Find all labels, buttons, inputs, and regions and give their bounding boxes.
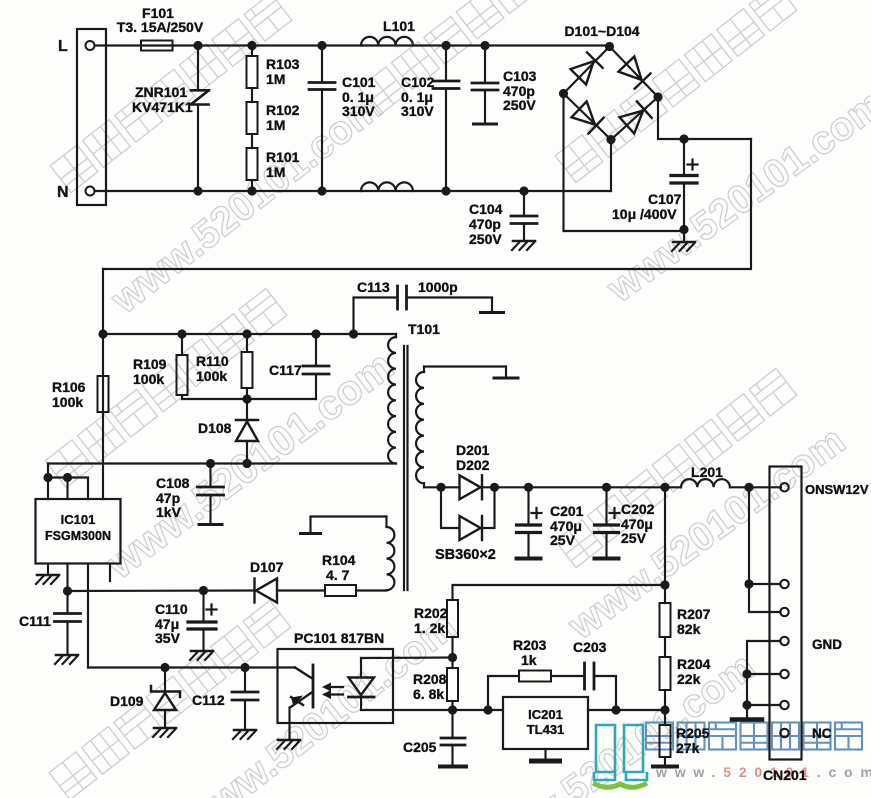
- junction divider top: [660, 483, 669, 492]
- junction R203 branch: [483, 705, 492, 714]
- wire to IC101 vcc pins: [48, 464, 88, 500]
- svg-text:C112: C112: [192, 692, 225, 708]
- junction rail-C117: [311, 329, 320, 338]
- svg-text:R110: R110: [196, 353, 229, 369]
- wire LED cathode line: [361, 709, 503, 711]
- capacitor C203: [583, 663, 586, 689]
- wire secondary top stub: [424, 367, 506, 377]
- transformer T101 primary: [395, 334, 397, 337]
- junction D108 bottom: [242, 459, 251, 468]
- op-amp U2 IC201 TL431: [503, 697, 588, 749]
- junction bridge right: [653, 92, 662, 101]
- svg-text:310V: 310V: [342, 103, 375, 119]
- ground (C205): [440, 765, 466, 769]
- transformer T101 secondary: [423, 367, 425, 373]
- svg-text:1000p: 1000p: [418, 279, 458, 295]
- light arrows PC101: [325, 686, 343, 688]
- svg-text:310V: 310V: [401, 103, 434, 119]
- svg-text:R208: R208: [413, 671, 447, 687]
- svg-text:D108: D108: [198, 420, 232, 436]
- svg-text:C205: C205: [403, 739, 437, 755]
- svg-text:C102: C102: [401, 74, 435, 90]
- svg-text:GND: GND: [812, 637, 842, 652]
- svg-text:L101: L101: [383, 18, 415, 34]
- svg-text:R102: R102: [266, 102, 300, 118]
- wire IC201 ref line: [588, 709, 665, 711]
- junction N-C101: [317, 186, 326, 195]
- svg-text:R109: R109: [133, 356, 167, 372]
- ground (IC101): [37, 574, 59, 577]
- junction IC101 pin2: [63, 473, 72, 482]
- stub (C108 bottom): [199, 523, 222, 526]
- wire R109/R110/C117 bottom: [182, 398, 316, 400]
- resistor R110: [246, 334, 248, 352]
- wire divider chain: [664, 487, 666, 603]
- junction bridge top: [605, 42, 614, 51]
- chassis stub (secondary): [494, 377, 518, 380]
- junction D201 anode: [436, 483, 445, 492]
- optocoupler PC101: [278, 649, 394, 723]
- inductor L101 (bottom): [361, 182, 413, 191]
- capacitor C107: [683, 139, 685, 174]
- ground (R205): [653, 765, 677, 769]
- wire 12V rail: [424, 486, 459, 488]
- junction L201 out: [744, 483, 753, 492]
- resistor R104: [325, 585, 356, 596]
- svg-text:D107: D107: [250, 559, 284, 575]
- capacitor C110: [202, 591, 204, 622]
- ground (C112): [234, 729, 256, 732]
- wire L rail: [95, 44, 610, 46]
- junction L-C101: [317, 41, 326, 50]
- svg-text:KV471K1: KV471K1: [132, 99, 193, 115]
- svg-text:D202: D202: [456, 457, 490, 473]
- ground (IC201): [532, 759, 560, 764]
- junction Vcc node: [63, 586, 72, 595]
- svg-text:R207: R207: [677, 606, 711, 622]
- wire IC101 vcc-sense pin: [66, 564, 68, 592]
- svg-text:6. 8k: 6. 8k: [413, 686, 444, 702]
- svg-text:C201: C201: [550, 503, 584, 519]
- svg-text:R106: R106: [52, 379, 86, 395]
- wire LED anode to R202/R208: [361, 656, 453, 659]
- wire R202 feed: [453, 585, 666, 600]
- junction R202/R208: [448, 653, 457, 662]
- ground (PC101): [278, 739, 300, 742]
- capacitor C113: [354, 298, 397, 335]
- svg-text:T3. 15A/250V: T3. 15A/250V: [117, 19, 204, 35]
- wire aux top stub: [311, 517, 387, 533]
- diode D201: [460, 475, 483, 499]
- wire IC201 anode: [544, 749, 546, 759]
- svg-text:C103: C103: [503, 68, 537, 84]
- wire bridge bottom to N rail: [610, 140, 612, 191]
- diode D107: [255, 579, 278, 603]
- inductor L101 (top): [361, 37, 413, 46]
- ground (D109): [154, 727, 176, 730]
- junction R202 tap: [660, 580, 669, 589]
- svg-text:1. 2k: 1. 2k: [414, 620, 445, 636]
- junction C201: [524, 483, 533, 492]
- svg-text:C108: C108: [156, 475, 190, 491]
- svg-text:82k: 82k: [677, 621, 701, 637]
- svg-text:470p: 470p: [469, 216, 501, 232]
- svg-text:C202: C202: [621, 501, 655, 517]
- wire C203 to ref: [595, 676, 616, 710]
- capacitor C104: [523, 191, 525, 216]
- resistor R101: [247, 148, 258, 180]
- svg-text:C117: C117: [269, 362, 302, 378]
- svg-text:NC: NC: [812, 726, 832, 741]
- svg-text:R203: R203: [513, 637, 547, 653]
- svg-text:FSGM300N: FSGM300N: [45, 529, 111, 543]
- svg-text:C111: C111: [19, 613, 51, 629]
- junction C107 bottom: [679, 225, 688, 234]
- junction C107 top: [679, 134, 688, 143]
- junction bridge left: [559, 89, 568, 98]
- terminal block L/N input: [77, 29, 106, 205]
- diode D108: [246, 399, 248, 419]
- svg-text:L: L: [58, 38, 68, 55]
- capacitor C103: [484, 46, 486, 83]
- transformer T101 core: [403, 346, 405, 590]
- wire gnd pins 4-6: [747, 641, 781, 717]
- junction pin5: [742, 669, 751, 678]
- svg-text:100k: 100k: [196, 368, 227, 384]
- bridge rectifier D101~D104: [564, 47, 659, 140]
- junction D109: [160, 663, 169, 672]
- ground (C202): [595, 557, 619, 561]
- wire IC101 fb pin down: [87, 564, 89, 668]
- svg-text:T101: T101: [408, 321, 440, 337]
- junction C108: [206, 459, 215, 468]
- wire PC101 emitter: [288, 708, 290, 740]
- svg-text:C107: C107: [648, 191, 682, 207]
- junction N-R101: [247, 186, 256, 195]
- svg-text:22k: 22k: [677, 671, 701, 687]
- op-amp U1 IC101 FSGM300N: [36, 499, 121, 564]
- svg-text:N: N: [57, 184, 69, 201]
- svg-text:C113: C113: [357, 279, 390, 295]
- wire D107 to R104: [278, 589, 326, 591]
- ground (C107): [673, 241, 695, 244]
- junction N-C102: [441, 186, 450, 195]
- svg-text:1kV: 1kV: [156, 504, 182, 520]
- junction IC101 pin1: [43, 473, 52, 482]
- junction L-C103: [480, 41, 489, 50]
- wire IC101 pin stubs: [47, 478, 49, 500]
- ground (C111): [56, 654, 78, 657]
- junction divider tap: [660, 705, 669, 714]
- svg-text:D101~D104: D101~D104: [564, 23, 639, 39]
- junction pin2: [744, 579, 753, 588]
- svg-text:PC101 817BN: PC101 817BN: [294, 630, 384, 646]
- fuse F101: [141, 41, 173, 51]
- svg-text:R204: R204: [677, 656, 711, 672]
- svg-text:IC101: IC101: [61, 512, 96, 527]
- resistor R102: [247, 102, 258, 134]
- svg-text:1M: 1M: [266, 117, 285, 133]
- svg-text:100k: 100k: [52, 394, 83, 410]
- svg-text:C104: C104: [469, 201, 503, 217]
- wire R203/C203 branch: [488, 676, 519, 710]
- junction bridge bottom: [606, 135, 615, 144]
- junction C110: [199, 586, 208, 595]
- junction C202: [602, 483, 611, 492]
- svg-text:ONSW12V: ONSW12V: [805, 482, 869, 497]
- junction L-R103: [247, 41, 256, 50]
- varistor ZNR101: [197, 46, 199, 91]
- capacitor C111: [66, 591, 68, 613]
- wire primary bottom: [48, 462, 396, 464]
- svg-text:R205: R205: [676, 725, 710, 741]
- svg-text:10μ /400V: 10μ /400V: [612, 206, 677, 222]
- capacitor C117: [315, 334, 317, 366]
- junction pin6: [742, 700, 751, 709]
- wire R203 to C203: [551, 675, 583, 677]
- svg-text:SB360×2: SB360×2: [435, 547, 496, 563]
- resistor R208: [451, 658, 453, 669]
- svg-text:R101: R101: [266, 149, 300, 165]
- ground (C104): [513, 240, 535, 243]
- svg-text:L201: L201: [691, 464, 723, 480]
- capacitor C101: [321, 46, 323, 83]
- capacitor C205: [451, 710, 453, 738]
- svg-text:4. 7: 4. 7: [326, 567, 350, 583]
- wire IC101 fb line: [88, 666, 278, 668]
- wire startup rail: [103, 333, 396, 335]
- ground (C201): [517, 557, 541, 561]
- junction rail-R109: [177, 329, 186, 338]
- ground (C110): [191, 650, 213, 653]
- svg-text:TL431: TL431: [527, 722, 565, 737]
- wire Vcc line: [68, 589, 255, 592]
- svg-text:1k: 1k: [521, 652, 537, 668]
- junction C112: [240, 663, 249, 672]
- wire IC101 ground pin: [47, 564, 49, 575]
- svg-text:1M: 1M: [266, 71, 285, 87]
- resistor R109: [181, 334, 183, 355]
- svg-text:27k: 27k: [676, 740, 700, 756]
- resistor R202: [447, 600, 458, 637]
- resistor R204: [660, 657, 671, 690]
- resistor R207: [660, 603, 671, 637]
- wire 12V to pins 2-3: [749, 487, 781, 584]
- stub IC101 nc pin: [109, 564, 111, 582]
- svg-text:C110: C110: [155, 601, 188, 617]
- chassis stub (aux): [301, 532, 321, 535]
- svg-text:IC201: IC201: [528, 707, 563, 722]
- svg-text:C101: C101: [342, 74, 376, 90]
- capacitor C102: [445, 46, 447, 81]
- junction rail-R106: [98, 329, 107, 338]
- resistor R103: [251, 46, 253, 57]
- junction D201 cathode: [490, 483, 499, 492]
- wire bridge right to B+: [658, 97, 751, 139]
- LED (PC101): [360, 658, 362, 678]
- svg-text:1M: 1M: [266, 164, 285, 180]
- junction rail-C113: [349, 329, 358, 338]
- junction C203-ref: [611, 705, 620, 714]
- resistor R205: [664, 710, 666, 725]
- junction rail-R110: [242, 329, 251, 338]
- junction R208 bottom: [448, 705, 457, 714]
- chassis stub (C113): [481, 311, 504, 314]
- capacitor C108: [209, 464, 211, 487]
- junction N-C104: [519, 186, 528, 195]
- ground (CN201): [732, 717, 762, 722]
- diode D202 (parallel): [441, 487, 459, 528]
- wire bridge left to C107 negative: [564, 94, 685, 232]
- svg-text:25V: 25V: [550, 532, 576, 548]
- junction L-ZNR: [193, 41, 202, 50]
- resistor R203: [519, 671, 551, 682]
- transistor Q (PC101 photo): [278, 666, 296, 668]
- capacitor C202: [605, 487, 607, 524]
- resistor R106: [98, 376, 109, 412]
- junction L-C102: [441, 41, 450, 50]
- capacitor C201: [527, 487, 529, 524]
- wire B+ down to primary rail: [103, 139, 751, 269]
- svg-text:250V: 250V: [469, 231, 502, 247]
- capacitor C112: [244, 668, 246, 692]
- svg-text:R202: R202: [414, 605, 448, 621]
- svg-text:D201: D201: [456, 442, 490, 458]
- wire C107 to ground: [683, 230, 685, 242]
- connector CN201: [770, 467, 802, 760]
- svg-text:R103: R103: [266, 56, 300, 72]
- svg-text:ZNR101: ZNR101: [135, 84, 187, 100]
- inductor L201: [681, 479, 730, 487]
- svg-text:100k: 100k: [133, 371, 164, 387]
- svg-text:D109: D109: [110, 693, 144, 709]
- svg-text:25V: 25V: [621, 530, 647, 546]
- transformer T101 aux winding: [387, 527, 395, 590]
- svg-text:35V: 35V: [155, 630, 181, 646]
- junction N-ZNR: [193, 186, 202, 195]
- svg-text:250V: 250V: [503, 97, 536, 113]
- wire R104 to aux winding: [356, 589, 387, 591]
- wire N rail: [95, 190, 612, 192]
- zener diode D109: [164, 668, 166, 691]
- svg-text:R104: R104: [322, 552, 356, 568]
- junction D108 top: [242, 394, 251, 403]
- wire B+ vertical to IC101: [102, 269, 104, 499]
- svg-text:C203: C203: [573, 639, 607, 655]
- svg-text:CN201: CN201: [763, 767, 807, 783]
